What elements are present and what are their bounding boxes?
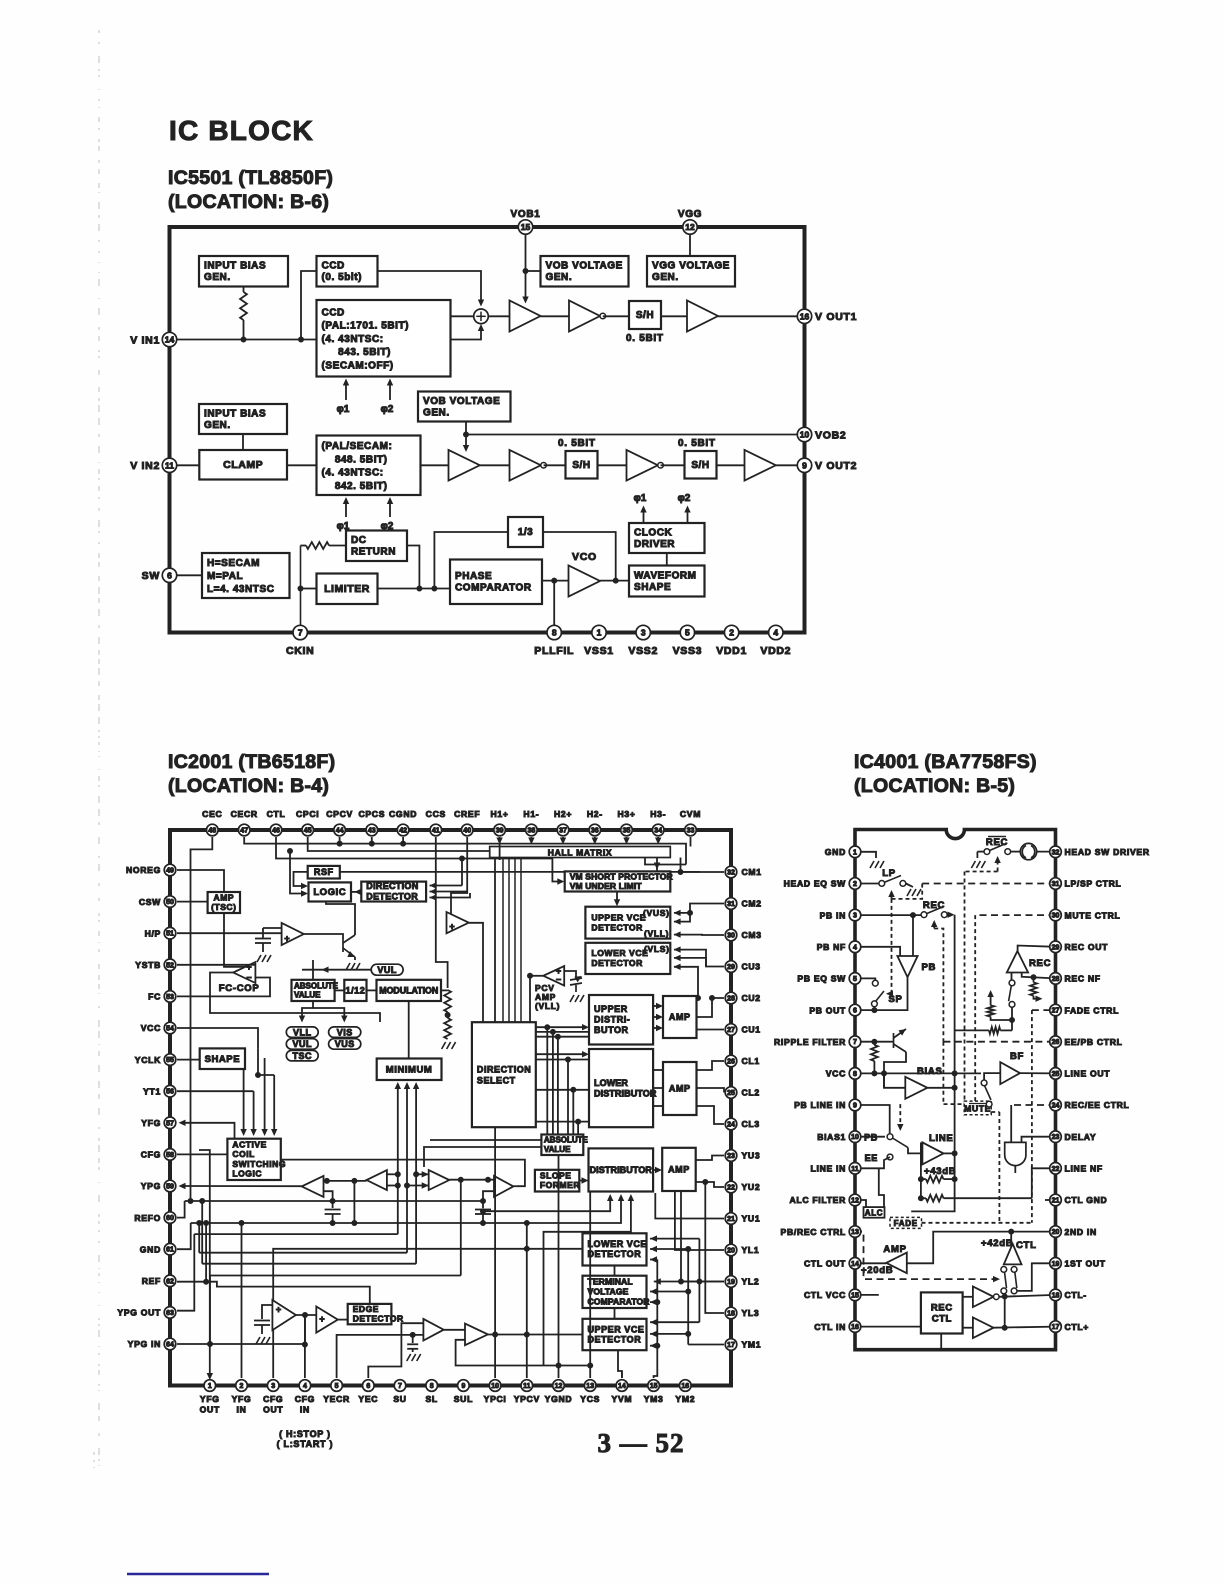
pin 46 CTL <box>270 824 282 836</box>
wire logic-detector <box>351 891 358 893</box>
svg-text:AMP: AMP <box>669 1012 691 1022</box>
svg-text:CTL VCC: CTL VCC <box>804 1290 846 1300</box>
switch contact rec-b <box>1005 849 1011 855</box>
junction <box>299 337 304 342</box>
svg-text:GND: GND <box>825 847 846 857</box>
wire DELAY <box>1022 1137 1056 1143</box>
wire to VM box top <box>657 865 686 872</box>
wire YL3 row riser <box>705 1182 724 1313</box>
box LOGIC <box>309 882 352 901</box>
wire LVD in1 <box>650 1238 699 1240</box>
pin 29 REC OUT <box>1050 941 1062 953</box>
svg-text:ALC FILTER: ALC FILTER <box>790 1195 847 1205</box>
wire dist-amp <box>653 1016 659 1018</box>
junction <box>1009 1229 1014 1234</box>
resistor (fb1) <box>926 1176 944 1183</box>
svg-text:40: 40 <box>463 828 471 835</box>
junction <box>872 1071 877 1076</box>
svg-text:VCC: VCC <box>141 1023 161 1033</box>
svg-text:CTL OUT: CTL OUT <box>804 1259 846 1269</box>
wire row riser <box>209 1276 211 1345</box>
wire UVD in2 <box>650 1333 688 1335</box>
svg-text:SUL: SUL <box>454 1394 473 1404</box>
wire hall input <box>530 837 532 842</box>
junction <box>330 1199 335 1204</box>
wire ctl link <box>1004 1297 1006 1328</box>
wire AMP to CL3 <box>697 1106 725 1124</box>
wire CECR bus <box>244 837 686 865</box>
wire bias2 to clamp <box>242 434 244 450</box>
svg-text:H1+: H1+ <box>491 809 509 819</box>
wire VCO feedback to 1/3 <box>543 532 616 581</box>
transistor Q1 <box>343 935 355 957</box>
box AMP (TSC) <box>208 892 240 913</box>
pin 36 H2- <box>589 824 601 836</box>
svg-text:COMPARATOR: COMPARATOR <box>588 1297 651 1307</box>
svg-text:YPCI: YPCI <box>484 1394 507 1404</box>
wire ACL bus to T-D <box>281 1160 525 1187</box>
wire ACL to YFG out <box>182 1123 235 1139</box>
wire H/P to amp <box>177 932 282 934</box>
switch contact ctl-1b <box>1011 1267 1017 1273</box>
svg-text:5: 5 <box>335 1383 339 1390</box>
junction <box>481 1199 486 1204</box>
svg-text:CGND: CGND <box>389 809 417 819</box>
svg-text:23: 23 <box>727 1153 735 1160</box>
svg-text:CTL GND: CTL GND <box>1065 1195 1108 1205</box>
svg-text:2ND IN: 2ND IN <box>1065 1227 1097 1237</box>
net pill VLL <box>286 1027 318 1038</box>
wire YU1 riser <box>655 1193 724 1219</box>
box TERMINAL VOLTAGE COMPARATOR <box>583 1276 651 1308</box>
svg-text:14: 14 <box>165 335 175 345</box>
wire 1/12 to modulation <box>367 989 377 991</box>
dashed wire PB/REC CTRL <box>855 1232 997 1280</box>
wire mute sw to BF <box>984 1073 1000 1080</box>
wire VOB2 line <box>466 434 805 436</box>
wire min col 3 <box>415 1098 417 1264</box>
head driver coil symbol <box>1020 843 1036 859</box>
svg-text:MODULATION: MODULATION <box>379 985 438 995</box>
switch contact LP-b <box>900 881 906 887</box>
svg-text:63: 63 <box>166 1310 174 1317</box>
wire minimum input <box>406 1084 408 1098</box>
capacitor (E1) <box>254 1321 270 1326</box>
wire pin3 PB IN <box>855 914 921 916</box>
pin 21 CTL GND <box>1050 1194 1062 1206</box>
op-amp BIAS <box>905 1077 927 1099</box>
svg-text:18: 18 <box>1052 1292 1060 1299</box>
wire AMP3 to YL1 <box>675 1191 724 1250</box>
svg-text:16: 16 <box>851 1324 859 1331</box>
pin 31 LP/SP CTRL <box>1050 878 1062 890</box>
svg-text:25: 25 <box>1052 1071 1060 1078</box>
wire dist to amp3 <box>653 1169 658 1171</box>
wire REC out to pin 29 <box>1018 946 1056 952</box>
wire AMP to CL1 <box>697 1061 725 1070</box>
pin 19 1ST OUT <box>1050 1258 1062 1270</box>
phi1 arrow (PAL) <box>345 500 347 518</box>
wire minimum input <box>397 1084 399 1098</box>
pin 11 V IN2 <box>162 458 176 472</box>
dashed mute column <box>974 915 976 1101</box>
svg-text:VSS1: VSS1 <box>584 645 614 657</box>
svg-text:ABSOLUTE: ABSOLUTE <box>294 981 339 990</box>
op-amp CTL+ buf <box>973 1317 994 1338</box>
bus line 2 to distributor <box>191 1196 621 1223</box>
switch arm (REC head) <box>990 844 1007 851</box>
svg-text:CPCV: CPCV <box>326 809 353 819</box>
wire minimum input <box>415 1084 417 1098</box>
resistor input bias 1 <box>240 292 247 320</box>
wire PB out <box>855 977 908 1010</box>
svg-text:YCS: YCS <box>580 1394 600 1404</box>
svg-text:30: 30 <box>1052 913 1060 920</box>
box DISTRIBUTOR <box>589 1148 654 1191</box>
dashed REC to EE/PB <box>934 929 943 1042</box>
wire CFG to ACL <box>177 1153 227 1155</box>
junction <box>882 1071 887 1076</box>
wire YCLK to SHAPE <box>177 1059 200 1061</box>
box INPUT BIAS GEN (1) <box>199 256 288 287</box>
switch contact rec-a <box>984 849 990 855</box>
svg-text:YPG IN: YPG IN <box>128 1339 161 1349</box>
bus line 4 <box>199 1252 407 1254</box>
op-amp T-A <box>302 1176 324 1197</box>
IC2001 outline <box>170 830 731 1386</box>
wire A2 to S/H <box>603 315 629 317</box>
wire resistor to DC RETURN <box>329 545 346 547</box>
wire E1 to E2 <box>296 1314 316 1316</box>
pin 26 CL1 <box>725 1055 737 1067</box>
junction <box>571 1087 576 1092</box>
wire hall to VM protector <box>645 858 657 865</box>
svg-text:56: 56 <box>166 1089 174 1096</box>
box UPPER DISTRIBUTOR <box>589 995 653 1045</box>
svg-text:SU: SU <box>393 1394 406 1404</box>
switch contact REC-b <box>941 912 947 918</box>
wire det in up <box>461 859 463 886</box>
wire B2 out <box>469 923 483 1022</box>
op-amp T-D <box>494 1176 513 1197</box>
svg-text:10: 10 <box>851 1134 859 1141</box>
wire CU3 to lower VCE <box>674 958 724 967</box>
pin 1 VSS1 <box>592 625 606 639</box>
junction <box>414 1172 419 1177</box>
pin 32 HEAD SW DRIVER <box>1050 846 1062 858</box>
wire A6 to S/H3 <box>661 464 685 466</box>
box 1/3 divider <box>508 517 543 547</box>
column in3 (x657) <box>654 1260 658 1379</box>
wire DC RETURN out <box>407 546 419 589</box>
junction <box>918 1177 923 1182</box>
svg-text:BIAS1: BIAS1 <box>817 1132 846 1142</box>
wire A5 to S/H2 <box>544 464 566 466</box>
box INPUT BIAS GEN (2) <box>199 404 287 434</box>
svg-text:L=4. 43NTSC: L=4. 43NTSC <box>207 584 274 595</box>
svg-text:( L:START ): ( L:START ) <box>277 1439 334 1449</box>
svg-text:IC2001 (TB6518F): IC2001 (TB6518F) <box>168 751 335 773</box>
wire to LINE OUT <box>1020 1072 1056 1074</box>
direction select output rows to lower distributor <box>536 1053 586 1055</box>
svg-text:−: − <box>246 973 251 983</box>
box AMP (CU) <box>663 996 697 1038</box>
wire REF riser <box>205 1223 207 1282</box>
junction <box>464 432 469 437</box>
pin 3 PB IN <box>849 909 861 921</box>
svg-text:(LOCATION: B-4): (LOCATION: B-4) <box>168 775 329 797</box>
junction <box>200 1199 205 1204</box>
svg-text:4: 4 <box>773 628 778 638</box>
box REC CTL <box>921 1292 963 1333</box>
svg-text:42: 42 <box>399 828 407 835</box>
wire detector input <box>430 891 463 893</box>
junction <box>679 1279 684 1284</box>
svg-text:49: 49 <box>166 868 174 875</box>
wire VOBgen2 down <box>465 422 467 435</box>
wire T-C in1 <box>416 1173 429 1175</box>
svg-text:FC: FC <box>148 992 161 1002</box>
op-amp F1 <box>423 1319 443 1341</box>
svg-text:CTL+: CTL+ <box>1065 1322 1090 1332</box>
wire pin3 col to LVD <box>273 1249 582 1378</box>
svg-text:CCD: CCD <box>322 261 345 272</box>
wire modulation out <box>441 989 448 991</box>
svg-text:REF: REF <box>142 1276 161 1286</box>
junction <box>330 1221 335 1226</box>
wire VUL to node <box>302 969 325 971</box>
switch contact SP-a <box>872 980 878 986</box>
svg-text:+: + <box>246 962 251 972</box>
switch contact (rec amp b) <box>1009 1002 1015 1008</box>
junction <box>204 1221 209 1226</box>
svg-text:7: 7 <box>398 1383 402 1390</box>
svg-text:NOREG: NOREG <box>126 865 161 875</box>
pin 5 VSS3 <box>680 625 694 639</box>
wire pin5 <box>855 978 875 980</box>
svg-text:45: 45 <box>304 828 312 835</box>
svg-text:2: 2 <box>853 881 857 888</box>
wire CTL VCC stub <box>855 1294 879 1296</box>
wire RSF line right <box>340 871 700 873</box>
svg-text:29: 29 <box>1052 944 1060 951</box>
junction <box>324 1178 329 1183</box>
junction <box>655 1300 660 1305</box>
svg-text:EDGE: EDGE <box>353 1304 379 1314</box>
svg-text:PB LINE IN: PB LINE IN <box>794 1100 846 1110</box>
svg-text:COMPARATOR: COMPARATOR <box>455 583 532 594</box>
pin 11 LINE IN <box>849 1163 861 1175</box>
svg-text:UPPER: UPPER <box>594 1004 628 1014</box>
net pill TSC <box>286 1050 318 1061</box>
switch contact (mute b) <box>986 1101 992 1107</box>
wire E1 cap branch <box>262 1305 272 1319</box>
svg-text:PLLFIL: PLLFIL <box>534 645 574 657</box>
svg-text:52: 52 <box>166 962 174 969</box>
pin 55 YCLK <box>164 1054 176 1066</box>
svg-text:CPCS: CPCS <box>358 809 385 819</box>
switch contact (mute a) <box>981 1080 987 1086</box>
wire FC-COP out <box>210 973 380 1023</box>
switch contact line-PB <box>887 1134 893 1140</box>
pin 44 CPCV <box>334 824 346 836</box>
resistor (mid-h) <box>989 1027 1000 1034</box>
pin 45 CPCI <box>302 824 314 836</box>
pin 15 YM3 <box>648 1380 660 1392</box>
pin 3 CFG OUT <box>267 1380 279 1392</box>
switch arm (LP) <box>885 876 902 883</box>
svg-text:+42dB: +42dB <box>981 1238 1013 1249</box>
svg-text:ALC: ALC <box>865 1209 884 1218</box>
wire VOB1 to VOB gen <box>526 270 541 272</box>
box CLAMP <box>199 450 287 480</box>
box 1/12 <box>344 980 366 1001</box>
junction <box>493 1332 498 1337</box>
wire min col 2 <box>406 1098 408 1253</box>
junction <box>481 1209 486 1214</box>
junction <box>523 269 528 274</box>
svg-text:14: 14 <box>618 1383 626 1390</box>
svg-text:TSC: TSC <box>293 1051 313 1061</box>
pin 8 SL <box>426 1380 438 1392</box>
svg-text:12: 12 <box>685 222 695 232</box>
svg-text:φ2: φ2 <box>381 404 394 415</box>
svg-text:LOGIC: LOGIC <box>232 1168 262 1178</box>
svg-text:11: 11 <box>851 1166 859 1173</box>
wire VOB2 into amp A4 <box>465 435 467 449</box>
wire BIAS1 <box>855 1136 885 1138</box>
svg-text:CTL-: CTL- <box>1065 1290 1087 1300</box>
wire CEC left bus <box>191 837 213 1201</box>
junction <box>524 1246 529 1251</box>
svg-text:9: 9 <box>802 460 807 470</box>
switch arm ctl-2 <box>1015 1272 1017 1288</box>
dashed wire EE/PB CTRL <box>943 1041 1055 1043</box>
svg-text:UPPER VCE: UPPER VCE <box>591 913 646 923</box>
op-amp A6 (inverting) <box>627 450 664 481</box>
wire rec base stub <box>1011 973 1013 981</box>
junction <box>445 1013 450 1018</box>
svg-text:φ2: φ2 <box>678 493 691 504</box>
AND gate (delay) <box>1005 1142 1026 1165</box>
pin 22 LINE NF <box>1050 1163 1062 1175</box>
ground (pin1) <box>870 861 884 868</box>
svg-text:DETECTOR: DETECTOR <box>591 923 643 933</box>
pin 30 CM3 <box>725 929 737 941</box>
svg-text:YU3: YU3 <box>742 1151 761 1161</box>
pin 24 CL3 <box>725 1118 737 1130</box>
svg-text:CECR: CECR <box>231 809 258 819</box>
svg-text:60: 60 <box>166 1215 174 1222</box>
svg-text:VM SHORT PROTECTOR: VM SHORT PROTECTOR <box>570 871 673 881</box>
svg-text:VGG: VGG <box>678 209 702 220</box>
svg-text:V OUT1: V OUT1 <box>815 311 857 323</box>
junction <box>588 1363 593 1368</box>
pin 25 CL2 <box>725 1087 737 1099</box>
svg-text:CCD: CCD <box>322 308 345 319</box>
junction <box>288 849 293 854</box>
svg-text:3: 3 <box>271 1383 275 1390</box>
svg-text:LINE NF: LINE NF <box>1065 1164 1103 1174</box>
pin 20 YL1 <box>725 1244 737 1256</box>
junction <box>678 870 683 875</box>
svg-text:13: 13 <box>586 1383 594 1390</box>
pin 33 CVM <box>685 824 697 836</box>
svg-text:+: + <box>449 922 454 932</box>
svg-text:YVM: YVM <box>612 1394 633 1404</box>
resistor (ripple) <box>871 1045 878 1061</box>
svg-text:(4. 43NTSC:: (4. 43NTSC: <box>322 334 384 345</box>
svg-text:SLOPE: SLOPE <box>540 1171 572 1181</box>
svg-text:H3-: H3- <box>650 809 666 819</box>
junction <box>556 1363 561 1368</box>
svg-text:DELAY: DELAY <box>1065 1132 1097 1142</box>
wire YECR to F1 <box>337 1335 424 1378</box>
svg-text:36: 36 <box>591 828 599 835</box>
wire T-A out to YPG <box>182 1185 302 1187</box>
pin 39 H1+ <box>494 824 506 836</box>
pin 42 CGND <box>397 824 409 836</box>
box CLOCK DRIVER <box>629 523 705 553</box>
svg-text:MUTE CTRL: MUTE CTRL <box>1065 910 1121 920</box>
wire line amp out <box>944 1152 955 1154</box>
svg-text:V IN2: V IN2 <box>130 460 160 472</box>
op-amp PB <box>897 956 917 977</box>
wire PLLFIL <box>553 581 555 633</box>
resistor CKIN <box>306 542 329 549</box>
pin 18 CTL- <box>1050 1289 1062 1301</box>
svg-text:REC/EE CTRL: REC/EE CTRL <box>1065 1100 1130 1110</box>
svg-text:CFG: CFG <box>263 1394 283 1404</box>
op-amp A4 <box>449 450 480 481</box>
pin 9 V OUT2 <box>797 458 811 472</box>
wire min col 1 <box>397 1098 399 1234</box>
pin 51 H/P <box>164 927 176 939</box>
junction <box>302 1342 307 1347</box>
svg-text:0. 5BIT: 0. 5BIT <box>558 438 596 449</box>
svg-text:−: − <box>556 974 561 984</box>
transistor Q (ripple) <box>894 1029 907 1052</box>
wire absval to VLL <box>302 1001 313 1019</box>
svg-text:CM2: CM2 <box>742 899 762 909</box>
pin 47 CECR <box>238 824 250 836</box>
svg-text:64: 64 <box>166 1342 174 1349</box>
svg-text:REFO: REFO <box>134 1213 161 1223</box>
op-amp BF <box>1000 1062 1020 1084</box>
svg-text:V IN1: V IN1 <box>130 335 160 347</box>
svg-text:CU3: CU3 <box>742 962 761 972</box>
box LOWER DISTRIBUTOR <box>589 1049 657 1127</box>
svg-text:HEAD EQ SW: HEAD EQ SW <box>784 879 847 889</box>
wire YCS col <box>589 1192 591 1379</box>
wire YPCV col <box>526 1223 528 1378</box>
svg-text:CU2: CU2 <box>742 993 761 1003</box>
svg-text:INPUT BIAS: INPUT BIAS <box>204 261 266 272</box>
box S/H (3) <box>685 451 717 479</box>
box PHASE COMPARATOR <box>450 560 542 605</box>
scan artifact: left margin dashed column <box>98 30 100 1466</box>
svg-text:FORMER: FORMER <box>540 1180 580 1190</box>
svg-text:53: 53 <box>166 994 174 1001</box>
box ACTIVE COIL SWITCHING LOGIC <box>227 1139 286 1180</box>
svg-text:+43dB: +43dB <box>924 1166 956 1177</box>
junction <box>352 1221 357 1226</box>
wire CCS column <box>436 837 448 988</box>
svg-text:1ST OUT: 1ST OUT <box>1065 1259 1106 1269</box>
dashed LP to SP <box>891 899 893 991</box>
phi2 arrow (CCD) <box>389 381 391 400</box>
junction <box>208 1342 213 1347</box>
